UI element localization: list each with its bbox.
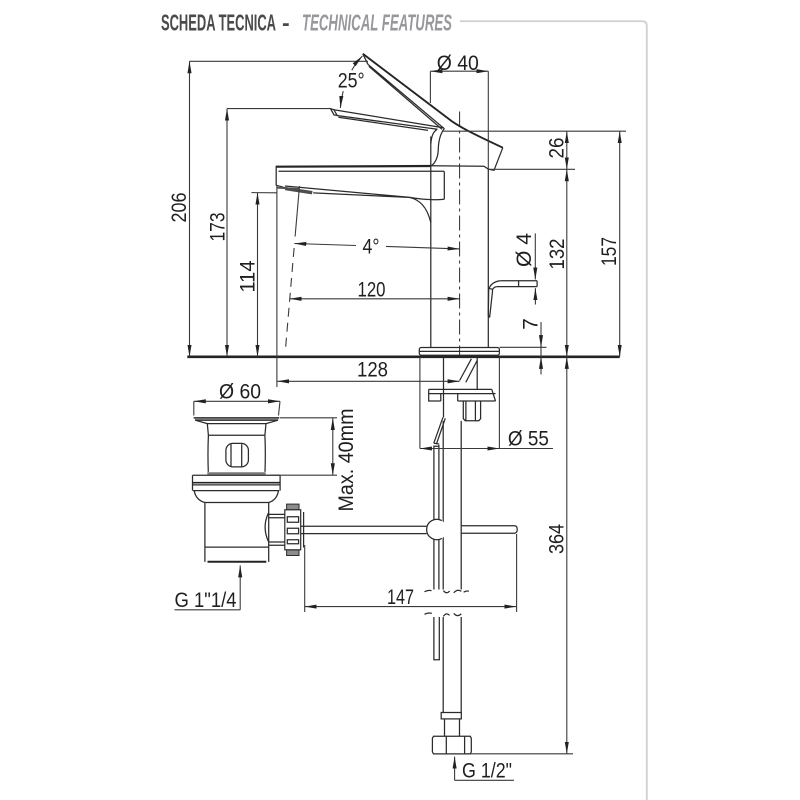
spout S-curve into column bbox=[409, 197, 431, 222]
deck mounting surface line bbox=[187, 355, 619, 358]
pipe break lower bbox=[425, 613, 462, 616]
svg-text:4°: 4° bbox=[363, 235, 380, 258]
hose collar bbox=[441, 713, 461, 719]
dimension 132 bbox=[566, 169, 568, 356]
dimension 4deg bbox=[294, 244, 356, 246]
neck fillet left bbox=[431, 130, 437, 144]
spout inner curve bbox=[409, 171, 444, 199]
window inner lines bbox=[231, 444, 242, 466]
spout head top edge bbox=[453, 122, 503, 148]
spout head bottom edge bbox=[431, 166, 489, 170]
svg-text:Ø 60: Ø 60 bbox=[219, 380, 261, 403]
label G 1/2" bbox=[454, 757, 456, 781]
supply hose right edge bbox=[460, 421, 462, 713]
svg-text:Ø 40: Ø 40 bbox=[437, 52, 479, 75]
knurled nut right face bbox=[303, 512, 305, 548]
plate inner thick line bbox=[193, 482, 281, 484]
svg-text:G 1"1/4: G 1"1/4 bbox=[175, 589, 237, 612]
drain side boss arc bbox=[265, 513, 268, 542]
drain outlet stub bbox=[269, 514, 285, 545]
svg-text:Max. 40mm: Max. 40mm bbox=[335, 409, 358, 512]
svg-text:128: 128 bbox=[357, 358, 388, 381]
4deg axis reference dashed line bbox=[295, 186, 299, 237]
dimension 157 bbox=[619, 131, 621, 357]
pull rod vertical bbox=[434, 445, 439, 590]
drain shoulder curves bbox=[194, 491, 278, 503]
drain flange taper bbox=[195, 420, 278, 423]
threaded shank below deck bbox=[444, 357, 478, 418]
closed lever tip cap bbox=[331, 109, 338, 116]
spout head right face bbox=[489, 148, 503, 171]
spout lip dark bar bbox=[277, 187, 300, 190]
pull rod down segment bbox=[488, 290, 492, 318]
faucet column left edge bbox=[430, 137, 432, 348]
ball joint on rod bbox=[427, 519, 447, 539]
closed lever bottom edge bbox=[337, 116, 438, 131]
pipe break upper bbox=[425, 590, 469, 593]
dimension oe40 bbox=[430, 71, 488, 169]
dimension 7 bbox=[500, 346, 547, 348]
mounting nut bbox=[463, 401, 480, 421]
svg-text:SCHEDA TECNICA: SCHEDA TECNICA bbox=[161, 10, 276, 36]
svg-text:26: 26 bbox=[546, 138, 569, 159]
svg-text:-: - bbox=[282, 10, 290, 36]
drain flange bottom edge bbox=[195, 419, 278, 421]
G 1/2 nut bbox=[432, 736, 471, 754]
pull rod elbow bbox=[489, 281, 501, 291]
hose tube bbox=[445, 719, 460, 736]
drain body inner line bbox=[205, 546, 269, 548]
drain lower body bbox=[205, 503, 269, 562]
dimension max 40mm bbox=[271, 418, 338, 475]
dimension oe60 bbox=[194, 401, 280, 415]
card frame corner bbox=[460, 21, 647, 800]
svg-text:25°: 25° bbox=[338, 70, 365, 93]
spout inner top line bbox=[279, 170, 445, 172]
dimension 147 bbox=[305, 534, 517, 612]
faucet column centerline bbox=[459, 112, 461, 357]
neck fillet right bbox=[432, 128, 445, 165]
dimension 364 bbox=[466, 753, 573, 755]
dimension 25deg arc bbox=[352, 56, 363, 70]
svg-text:132: 132 bbox=[546, 239, 569, 270]
drain flange top edge bbox=[194, 417, 280, 419]
dimension 173 bbox=[227, 108, 331, 110]
drain lever rod right part bbox=[461, 526, 517, 534]
label G 1"1/4 bbox=[239, 565, 241, 609]
drain upper body bbox=[208, 435, 265, 472]
pull rod diagonal below deck bbox=[434, 417, 446, 446]
open lever bottom edges bbox=[368, 64, 444, 129]
plate inner thin line bbox=[193, 484, 281, 486]
mounting washer plate bbox=[429, 389, 496, 401]
spout body top edge bbox=[276, 165, 431, 168]
supply hose left edge bbox=[442, 421, 444, 713]
svg-text:G 1/2": G 1/2" bbox=[462, 760, 512, 783]
svg-text:157: 157 bbox=[598, 237, 621, 266]
dimension 26 bbox=[442, 131, 626, 169]
knurled nut ribs bbox=[287, 517, 298, 544]
drain flange gray band bbox=[194, 418, 280, 420]
base flange inner line bbox=[419, 350, 499, 352]
svg-text:120: 120 bbox=[358, 278, 386, 301]
open lever tip cap bbox=[363, 54, 368, 65]
drain bottom edge bbox=[208, 561, 267, 563]
svg-text:Ø 4: Ø 4 bbox=[513, 233, 536, 267]
knurled nut top cap bbox=[287, 504, 299, 510]
drain neck section bbox=[207, 424, 266, 436]
drain body bottom shadow bbox=[207, 472, 265, 474]
pull rod vertical lower + end cap bbox=[434, 617, 439, 660]
svg-text:7: 7 bbox=[520, 318, 543, 330]
drain lever rod left part bbox=[301, 526, 427, 533]
dimension 128 bbox=[276, 186, 278, 387]
faucet column right edge bbox=[487, 169, 489, 347]
svg-text:114: 114 bbox=[236, 260, 259, 292]
svg-text:364: 364 bbox=[546, 524, 569, 554]
oe55 boundary right bbox=[498, 357, 500, 448]
dimension oe4 leader bbox=[534, 233, 536, 279]
dimension oe55 bbox=[420, 448, 500, 450]
drain overflow window bbox=[226, 443, 249, 467]
svg-text:147: 147 bbox=[387, 586, 414, 609]
drain wide plate bbox=[193, 475, 281, 490]
open lever top edge bbox=[363, 54, 453, 122]
svg-text:Ø 55: Ø 55 bbox=[508, 428, 549, 451]
spout underside wedge lines bbox=[285, 186, 409, 197]
svg-text:173: 173 bbox=[207, 213, 230, 242]
dimension 206 bbox=[190, 60, 369, 62]
spout left edge bbox=[276, 167, 285, 188]
knurled nut body bbox=[285, 510, 301, 550]
dimension 120 bbox=[290, 298, 460, 300]
closed lever top edge bbox=[334, 110, 444, 128]
svg-text:206: 206 bbox=[168, 193, 191, 223]
base flange bbox=[419, 348, 499, 356]
oe55 boundary left bbox=[419, 357, 421, 448]
svg-text:TECHNICAL FEATURES: TECHNICAL FEATURES bbox=[302, 10, 452, 36]
dimension 114 bbox=[252, 192, 277, 194]
aerator dark bar bbox=[285, 187, 313, 195]
drain pull rod upper (oe4) horizontal part bbox=[497, 281, 537, 287]
knurled nut bottom cap bbox=[287, 550, 299, 556]
